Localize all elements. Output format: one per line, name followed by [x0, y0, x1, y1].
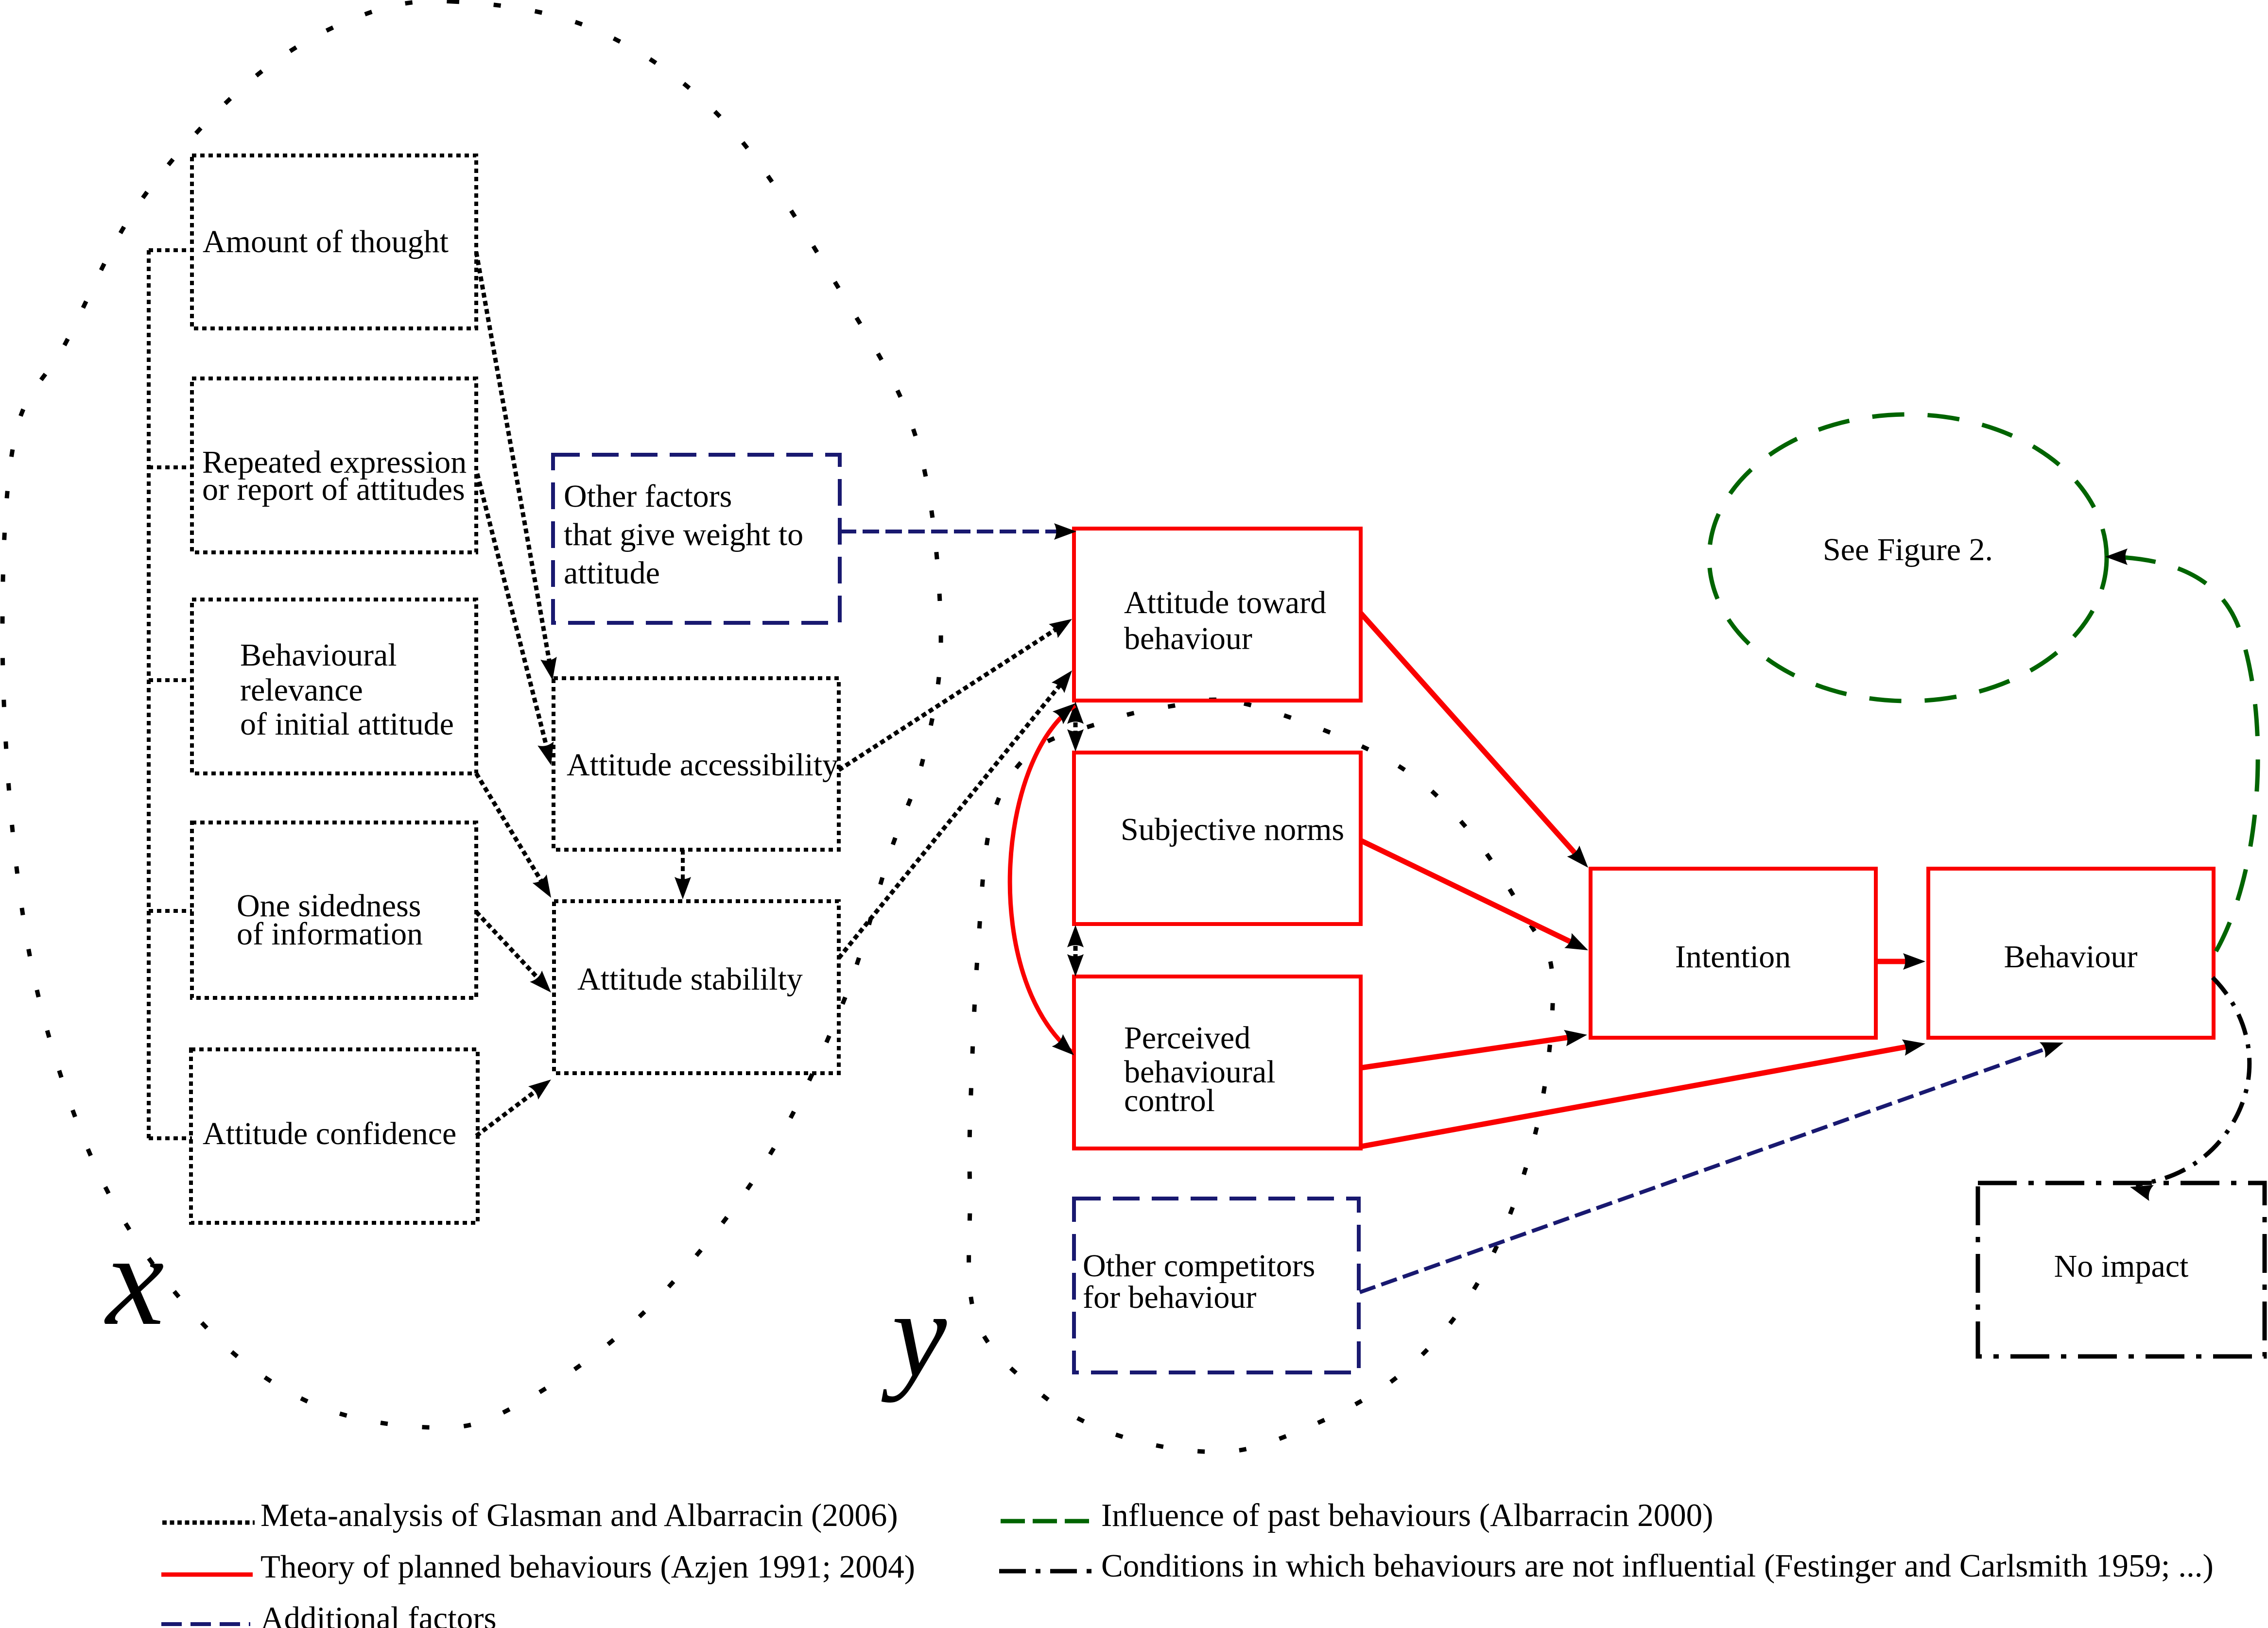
- dotted arrow Repeated expression to Attitude accessibility: [477, 474, 559, 767]
- bracket stub to Attitude confidence: [149, 1136, 192, 1140]
- legend text theory: [260, 1549, 915, 1585]
- green dashed curve Behaviour to See Figure 2: [2105, 548, 2258, 951]
- red arrow Intention to Behaviour: [1876, 953, 1925, 970]
- svg-text:Attitude confidence: Attitude confidence: [203, 1116, 456, 1151]
- svg-text:Attitude accessibility: Attitude accessibility: [567, 747, 838, 783]
- dotted double arrow ATB-SN: [1067, 702, 1084, 752]
- svg-text:of initial attitude: of initial attitude: [240, 706, 454, 742]
- y-group dotted ellipse: [969, 700, 1553, 1452]
- box Other competitors: [1074, 1199, 1359, 1372]
- legend green swatch: [1001, 1519, 1092, 1524]
- label x: [104, 1207, 164, 1353]
- svg-text:Perceived: Perceived: [1124, 1020, 1250, 1056]
- svg-text:Amount of thought: Amount of thought: [203, 224, 449, 259]
- svg-text:Subjective norms: Subjective norms: [1121, 812, 1344, 847]
- box Attitude stabililty: [554, 901, 839, 1073]
- legend red swatch: [161, 1573, 253, 1577]
- svg-text:Theory of planned behaviours (: Theory of planned behaviours (Azjen 1991…: [260, 1549, 915, 1585]
- svg-text:No impact: No impact: [2054, 1249, 2189, 1284]
- navy arrow Other factors to ATB: [840, 523, 1076, 540]
- bracket stub to One sidedness: [149, 909, 192, 913]
- legend dotted swatch: [162, 1521, 255, 1525]
- svg-text:relevance: relevance: [240, 672, 363, 708]
- svg-text:Other competitors: Other competitors: [1083, 1248, 1315, 1284]
- svg-text:behaviour: behaviour: [1124, 621, 1252, 656]
- svg-text:control: control: [1124, 1083, 1215, 1118]
- red arrow ATB to Intention: [1361, 613, 1594, 873]
- box Behavioural relevance: [192, 600, 476, 773]
- red arrow SN to Intention: [1361, 840, 1592, 958]
- box Attitude toward behaviour: [1074, 529, 1361, 701]
- svg-text:Intention: Intention: [1675, 939, 1791, 975]
- navy arrow Other competitors to Behaviour: [1360, 1035, 2066, 1292]
- dotted arrow Behavioural relevance to Attitude stabililty: [476, 773, 558, 902]
- svg-text:Influence of past behaviours (: Influence of past behaviours (Albarracin…: [1101, 1497, 1714, 1533]
- svg-text:Attitude stabililty: Attitude stabililty: [577, 961, 803, 997]
- svg-text:Other factors: Other factors: [564, 479, 732, 514]
- box Attitude accessibility: [554, 678, 839, 850]
- svg-text:of information: of information: [237, 916, 423, 952]
- dotted arrow Attitude confidence to Attitude stabililty: [476, 1073, 556, 1136]
- red arrow PBC to Intention: [1361, 1027, 1588, 1068]
- svg-text:Behavioural: Behavioural: [240, 637, 397, 673]
- svg-text:that give weight to: that give weight to: [564, 517, 803, 552]
- svg-text:See Figure 2.: See Figure 2.: [1823, 532, 1993, 567]
- box Intention: [1591, 869, 1876, 1038]
- bracket vertical line: [147, 250, 151, 1138]
- dotted arrow One sidedness to Attitude stabililty: [476, 912, 557, 998]
- red arrow PBC to Behaviour: [1361, 1035, 1927, 1147]
- dash-dot curve Behaviour to No impact: [2128, 977, 2249, 1201]
- legend navy swatch: [161, 1622, 250, 1626]
- dotted arrow Attitude accessibility to Attitude toward behaviour: [839, 612, 1076, 770]
- dotted arrow Amount of thought to Attitude accessibility: [476, 252, 561, 682]
- bracket stub to Behavioural relevance: [149, 678, 192, 682]
- x-group dotted ellipse: [2, 1, 941, 1427]
- dotted arrow Attitude accessibility to Attitude stabililty: [675, 850, 691, 899]
- svg-text:x: x: [104, 1207, 164, 1353]
- box Amount of thought: [192, 155, 476, 328]
- dotted arrow Attitude stabililty to Attitude toward behaviour: [839, 665, 1078, 958]
- bracket stub to Repeated expression: [149, 465, 192, 469]
- legend text additional: [260, 1600, 497, 1628]
- green dashed ellipse See Figure 2: [1709, 414, 2107, 701]
- dotted double arrow SN-PBC: [1067, 925, 1084, 977]
- box Other factors: [553, 455, 840, 623]
- box Repeated expression: [192, 378, 476, 552]
- svg-text:Additional factors: Additional factors: [260, 1600, 497, 1628]
- svg-text:Behaviour: Behaviour: [2004, 939, 2138, 975]
- svg-text:Attitude toward: Attitude toward: [1124, 585, 1326, 620]
- box One sidedness: [192, 823, 476, 998]
- svg-text:for behaviour: for behaviour: [1083, 1280, 1256, 1315]
- red double arc ATB-PBC: [1010, 697, 1080, 1062]
- legend text conditions: [1101, 1548, 2214, 1584]
- label y: [881, 1266, 947, 1403]
- box Subjective norms: [1074, 753, 1361, 924]
- legend text influence: [1101, 1497, 1714, 1533]
- legend dash-dot swatch: [999, 1569, 1092, 1574]
- box Attitude confidence: [191, 1049, 478, 1223]
- svg-text:attitude: attitude: [564, 555, 660, 591]
- svg-text:Meta-analysis of Glasman and A: Meta-analysis of Glasman and Albarracin …: [260, 1497, 898, 1533]
- svg-text:Conditions in which behaviours: Conditions in which behaviours are not i…: [1101, 1548, 2214, 1584]
- box Perceived behavioural control: [1074, 977, 1361, 1148]
- svg-text:or report of attitudes: or report of attitudes: [202, 472, 465, 507]
- bracket stub to Amount of thought: [149, 248, 192, 252]
- box Behaviour: [1928, 869, 2214, 1038]
- legend text meta-analysis: [260, 1497, 898, 1533]
- box No impact: [1978, 1183, 2265, 1356]
